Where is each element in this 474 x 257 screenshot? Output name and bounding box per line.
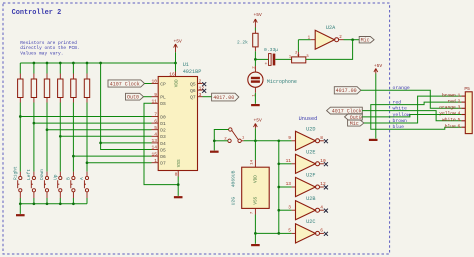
junction	[33, 202, 36, 205]
junction	[19, 115, 22, 118]
svg-text:6: 6	[320, 228, 323, 234]
svg-text:U2D: U2D	[306, 126, 315, 132]
wire	[279, 140, 292, 142]
wire	[244, 140, 279, 142]
svg-text:white: white	[393, 106, 408, 112]
wire	[298, 39, 310, 41]
U2C reference	[306, 219, 315, 225]
svg-text:red: red	[393, 100, 402, 106]
svg-text:D2: D2	[160, 128, 166, 134]
resistor R1	[18, 63, 23, 103]
wire	[275, 58, 291, 60]
wire VSS U1	[177, 177, 179, 196]
wire	[19, 198, 21, 204]
svg-text:+5V: +5V	[253, 117, 262, 123]
svg-text:+5V: +5V	[174, 39, 183, 45]
svg-text:VSS: VSS	[177, 159, 182, 167]
svg-text:yellow: yellow	[439, 111, 456, 117]
wire +5V rail	[20, 62, 175, 64]
svg-text:9: 9	[154, 92, 157, 98]
svg-text:Mic: Mic	[350, 121, 359, 127]
wire	[214, 140, 228, 142]
junction	[254, 232, 257, 235]
global label 4017 Clock (right)	[327, 107, 363, 114]
junction	[46, 62, 49, 65]
inverter U2A	[308, 30, 344, 49]
U1 reference	[183, 62, 189, 68]
wire	[34, 122, 152, 124]
svg-text:4017.00: 4017.00	[336, 88, 357, 94]
power +5V (connector)	[374, 63, 383, 73]
global label Out0 (right)	[345, 114, 363, 121]
resistor R3	[44, 63, 49, 103]
wire yellow net	[362, 115, 461, 117]
junction	[72, 202, 75, 205]
svg-text:D5: D5	[160, 147, 166, 153]
wire	[254, 51, 256, 59]
svg-text:Right: Right	[12, 166, 18, 180]
svg-text:brown: brown	[393, 118, 408, 124]
svg-text:B: B	[65, 177, 71, 180]
switch Up	[52, 172, 62, 198]
junction	[59, 135, 62, 138]
wire	[72, 198, 74, 204]
svg-text:A: A	[79, 177, 85, 180]
svg-text:13: 13	[286, 181, 292, 187]
svg-text:3: 3	[199, 92, 202, 98]
wire Q7 to label	[203, 96, 212, 98]
U2E reference	[306, 149, 315, 155]
net label blue	[393, 124, 405, 130]
wire	[19, 103, 21, 172]
ground	[369, 139, 378, 141]
svg-text:P5: P5	[464, 86, 470, 92]
wire	[375, 74, 377, 139]
svg-text:U2F: U2F	[306, 173, 315, 179]
wire	[144, 96, 152, 98]
net label brown	[393, 118, 408, 124]
wire	[72, 103, 74, 172]
svg-text:D4: D4	[160, 141, 166, 147]
ground	[16, 214, 25, 216]
svg-text:1: 1	[154, 158, 157, 164]
junction	[351, 38, 354, 41]
resistor R5	[71, 63, 76, 103]
svg-text:U1: U1	[183, 62, 189, 68]
wire	[46, 103, 48, 172]
no-connect Q6	[202, 89, 206, 93]
inverter U2F	[286, 177, 326, 196]
svg-text:3: 3	[288, 204, 291, 210]
no-connect U2C	[324, 232, 328, 236]
wire red-blue net	[371, 102, 462, 129]
junction	[33, 122, 36, 125]
potentiometer R8	[289, 51, 309, 63]
wire	[255, 232, 278, 234]
U2D reference	[306, 126, 315, 132]
svg-text:orange: orange	[393, 86, 410, 91]
svg-text:CP: CP	[160, 81, 166, 87]
svg-text:Resistors are printed: Resistors are printed	[20, 40, 77, 46]
junction	[46, 128, 49, 131]
wire	[86, 103, 88, 172]
P5 reference	[464, 86, 470, 92]
svg-text:4: 4	[154, 132, 157, 138]
microphone label	[267, 79, 297, 85]
svg-text:U2G: U2G	[231, 197, 237, 206]
hex inverter U2 power unit	[242, 159, 270, 214]
svg-text:D1: D1	[160, 121, 166, 127]
resistor R6	[84, 63, 89, 103]
svg-text:8: 8	[175, 172, 178, 178]
junction	[33, 62, 36, 65]
wire	[279, 163, 292, 165]
junction	[59, 202, 62, 205]
svg-text:0.33µ: 0.33µ	[264, 47, 278, 53]
power +5V (U1)	[174, 39, 183, 53]
wire	[19, 204, 21, 214]
svg-text:U2A: U2A	[326, 25, 336, 31]
global label Mic	[359, 37, 374, 44]
wire	[254, 28, 256, 31]
wire white net	[362, 111, 461, 121]
svg-text:5: 5	[154, 125, 157, 131]
svg-text:2.2k: 2.2k	[237, 39, 248, 45]
title Controller 2	[12, 9, 62, 17]
global label 4017.00 (right)	[334, 87, 361, 95]
svg-text:DS: DS	[160, 101, 166, 107]
no-connect U2F	[324, 185, 328, 189]
inverter U2E	[286, 154, 326, 173]
svg-text:11: 11	[286, 158, 292, 164]
wire	[33, 103, 35, 172]
U1 value 4021BP	[183, 69, 202, 75]
svg-text:Q6: Q6	[190, 88, 196, 94]
ground	[251, 104, 260, 106]
svg-text:4021BP: 4021BP	[183, 69, 202, 75]
svg-text:5: 5	[458, 117, 461, 123]
microphone MK1	[248, 59, 263, 96]
wire	[254, 233, 256, 243]
svg-text:4107 Clock: 4107 Clock	[110, 81, 140, 87]
U2F reference	[306, 173, 315, 179]
wire	[46, 198, 48, 204]
global label Mic (right)	[348, 120, 364, 127]
svg-text:Out0: Out0	[127, 95, 139, 101]
junction	[86, 62, 89, 65]
wire orange net	[361, 90, 462, 108]
svg-text:+: +	[265, 62, 268, 67]
svg-text:Unused: Unused	[299, 116, 318, 122]
svg-text:directly onto the PCB.: directly onto the PCB.	[20, 45, 79, 51]
svg-text:14: 14	[251, 159, 255, 164]
switch Right	[12, 166, 22, 198]
resistor R4	[58, 63, 63, 103]
connector P5	[439, 92, 472, 134]
junction	[277, 232, 280, 235]
wire	[255, 58, 268, 60]
wire	[254, 93, 256, 104]
svg-text:white: white	[442, 117, 456, 123]
U2A reference	[326, 25, 336, 31]
U2B reference	[306, 196, 315, 202]
global label 4107 Clock	[108, 80, 145, 88]
svg-text:D6: D6	[160, 154, 166, 160]
wire	[101, 142, 152, 144]
junction	[177, 183, 180, 186]
switch Left	[26, 169, 36, 198]
svg-text:2: 2	[199, 79, 202, 85]
svg-text:PL: PL	[160, 95, 166, 101]
U2 value 4069UB	[231, 170, 237, 187]
wire	[254, 215, 256, 234]
svg-text:yellow: yellow	[393, 112, 410, 118]
inverter U2D	[288, 131, 324, 150]
svg-text:6: 6	[458, 123, 461, 129]
svg-text:Q5: Q5	[190, 81, 196, 87]
wire	[279, 232, 292, 234]
no-connect Q5	[202, 82, 206, 86]
junction	[277, 139, 280, 142]
junction	[72, 155, 75, 158]
svg-text:8: 8	[320, 135, 323, 141]
wire	[73, 155, 151, 157]
wire	[175, 63, 177, 72]
svg-text:D7: D7	[160, 161, 166, 167]
svg-text:VDD: VDD	[253, 175, 258, 183]
net label yellow	[393, 112, 410, 118]
net label red	[393, 100, 402, 106]
switch SW1 (mic switch)	[224, 128, 245, 143]
shift register U1 4021BP	[151, 71, 204, 177]
wire	[214, 130, 228, 151]
junction	[46, 202, 49, 205]
switch Down	[39, 169, 49, 198]
ground	[251, 244, 260, 246]
svg-text:D0: D0	[160, 114, 166, 120]
svg-text:14: 14	[151, 145, 157, 151]
svg-text:blue: blue	[393, 124, 405, 130]
power +5V (mic)	[253, 12, 262, 28]
wire	[60, 135, 151, 137]
net label orange	[393, 86, 410, 91]
svg-text:7: 7	[154, 112, 157, 118]
ground	[210, 151, 219, 153]
wire brown net	[364, 96, 462, 123]
no-connect U2D	[324, 139, 328, 143]
svg-text:16: 16	[169, 71, 175, 77]
resistor R7 2.2k	[253, 31, 258, 52]
wire +5V to D4/D5	[101, 63, 152, 150]
inverter U2B	[288, 201, 324, 220]
svg-text:Down: Down	[39, 169, 45, 180]
wire	[279, 186, 292, 188]
global label 4017.00	[212, 93, 239, 101]
inverter U2C	[288, 224, 324, 243]
R7 value 2.2k	[237, 39, 248, 45]
no-connect U2B	[324, 209, 328, 213]
svg-text:D3: D3	[160, 134, 166, 140]
svg-text:U2B: U2B	[306, 196, 315, 202]
wire	[20, 116, 151, 118]
junction	[254, 139, 257, 142]
junction	[174, 62, 177, 65]
switch A	[79, 172, 89, 198]
junction	[277, 209, 280, 212]
svg-text:11: 11	[151, 99, 157, 105]
note text	[20, 40, 79, 57]
svg-text:Controller 2: Controller 2	[12, 9, 62, 17]
svg-text:Values may vary.: Values may vary.	[20, 50, 63, 56]
svg-text:Q7: Q7	[190, 95, 196, 101]
wire feedback	[306, 40, 353, 60]
wire	[145, 83, 152, 85]
unused label	[299, 116, 318, 122]
resistor R2	[31, 63, 36, 103]
junction	[99, 62, 102, 65]
junction	[254, 58, 257, 61]
wire	[344, 39, 360, 41]
global label Out0	[126, 93, 144, 100]
svg-text:red: red	[448, 98, 457, 104]
wire	[33, 198, 35, 204]
junction	[86, 161, 89, 164]
wire	[279, 209, 292, 211]
svg-text:Microphone: Microphone	[267, 79, 297, 85]
svg-text:4: 4	[458, 111, 461, 117]
svg-text:10: 10	[151, 79, 157, 85]
ground	[174, 196, 183, 198]
wire DS to ground	[144, 103, 178, 184]
svg-text:4017.00: 4017.00	[213, 95, 234, 101]
junction	[72, 62, 75, 65]
capacitor C1 0.33u	[265, 54, 276, 67]
wire	[86, 198, 88, 204]
svg-text:Left: Left	[26, 169, 32, 180]
wire	[297, 40, 299, 52]
wire	[59, 103, 61, 172]
svg-text:2: 2	[458, 98, 461, 104]
wire	[47, 129, 152, 131]
junction	[277, 186, 280, 189]
C1 value 0.33u	[264, 47, 278, 53]
net label white	[393, 106, 408, 112]
svg-text:U2C: U2C	[306, 219, 315, 225]
no-connect U2E	[324, 162, 328, 166]
wire	[175, 52, 177, 63]
svg-text:+5V: +5V	[253, 12, 262, 18]
svg-text:4: 4	[320, 204, 323, 210]
svg-text:9: 9	[288, 135, 291, 141]
junction	[213, 139, 216, 142]
svg-text:4069UB: 4069UB	[231, 170, 237, 187]
svg-text:1: 1	[458, 92, 461, 98]
wire unused gate feed	[278, 141, 280, 234]
svg-text:13: 13	[151, 138, 157, 144]
svg-text:blue: blue	[445, 123, 456, 129]
wire	[59, 198, 61, 204]
svg-text:Mic: Mic	[361, 38, 370, 44]
svg-text:+5V: +5V	[374, 63, 383, 69]
svg-text:6: 6	[154, 118, 157, 124]
switch B	[65, 172, 75, 198]
junction	[99, 142, 102, 145]
power +5V (U2)	[253, 117, 262, 128]
junction	[19, 202, 22, 205]
wire	[87, 162, 152, 164]
schematic frame (dashed border)	[3, 3, 390, 254]
wire ground rail	[20, 203, 87, 205]
svg-text:VSS: VSS	[253, 196, 258, 204]
svg-text:brown: brown	[442, 92, 456, 98]
svg-text:5: 5	[288, 228, 291, 234]
svg-text:orange: orange	[439, 106, 456, 111]
svg-text:U2E: U2E	[306, 149, 315, 155]
junction	[59, 62, 62, 65]
U2 reference	[231, 197, 237, 206]
svg-text:VDD: VDD	[174, 79, 179, 87]
svg-text:3: 3	[458, 105, 461, 111]
svg-text:15: 15	[151, 151, 157, 157]
wire	[254, 128, 256, 160]
junction	[277, 162, 280, 165]
svg-text:Up: Up	[52, 174, 58, 180]
